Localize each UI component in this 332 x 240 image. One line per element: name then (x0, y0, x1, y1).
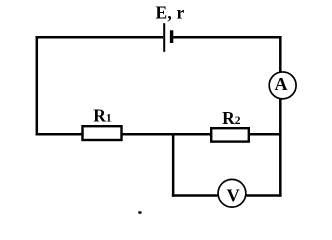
wire: bottom horizontal (through voltmeter) (172, 194, 282, 197)
battery E,r short thick plate (170, 30, 173, 43)
battery E,r long plate (163, 23, 165, 52)
resistor R1 (83, 126, 122, 140)
svg-text:E, r: E, r (156, 2, 185, 22)
svg-text:R1: R1 (93, 105, 112, 125)
wire: top-right segment from battery to right corner (173, 36, 281, 39)
wire: voltmeter branch vertical from node between R1 and R2 (172, 133, 175, 197)
resistor R2 (211, 128, 249, 141)
wire: left vertical side (36, 36, 39, 135)
wire: top-left segment from left corner to battery (36, 36, 164, 39)
wire: middle horizontal rail (36, 133, 282, 136)
wire: right vertical side (through ammeter) (279, 36, 282, 197)
stray mark (cropped text) at bottom (138, 211, 141, 213)
svg-text:A: A (275, 74, 288, 94)
voltmeter V circle (218, 179, 246, 207)
ammeter A circle (269, 72, 296, 99)
svg-text:R2: R2 (222, 108, 241, 128)
svg-text:V: V (227, 186, 240, 206)
